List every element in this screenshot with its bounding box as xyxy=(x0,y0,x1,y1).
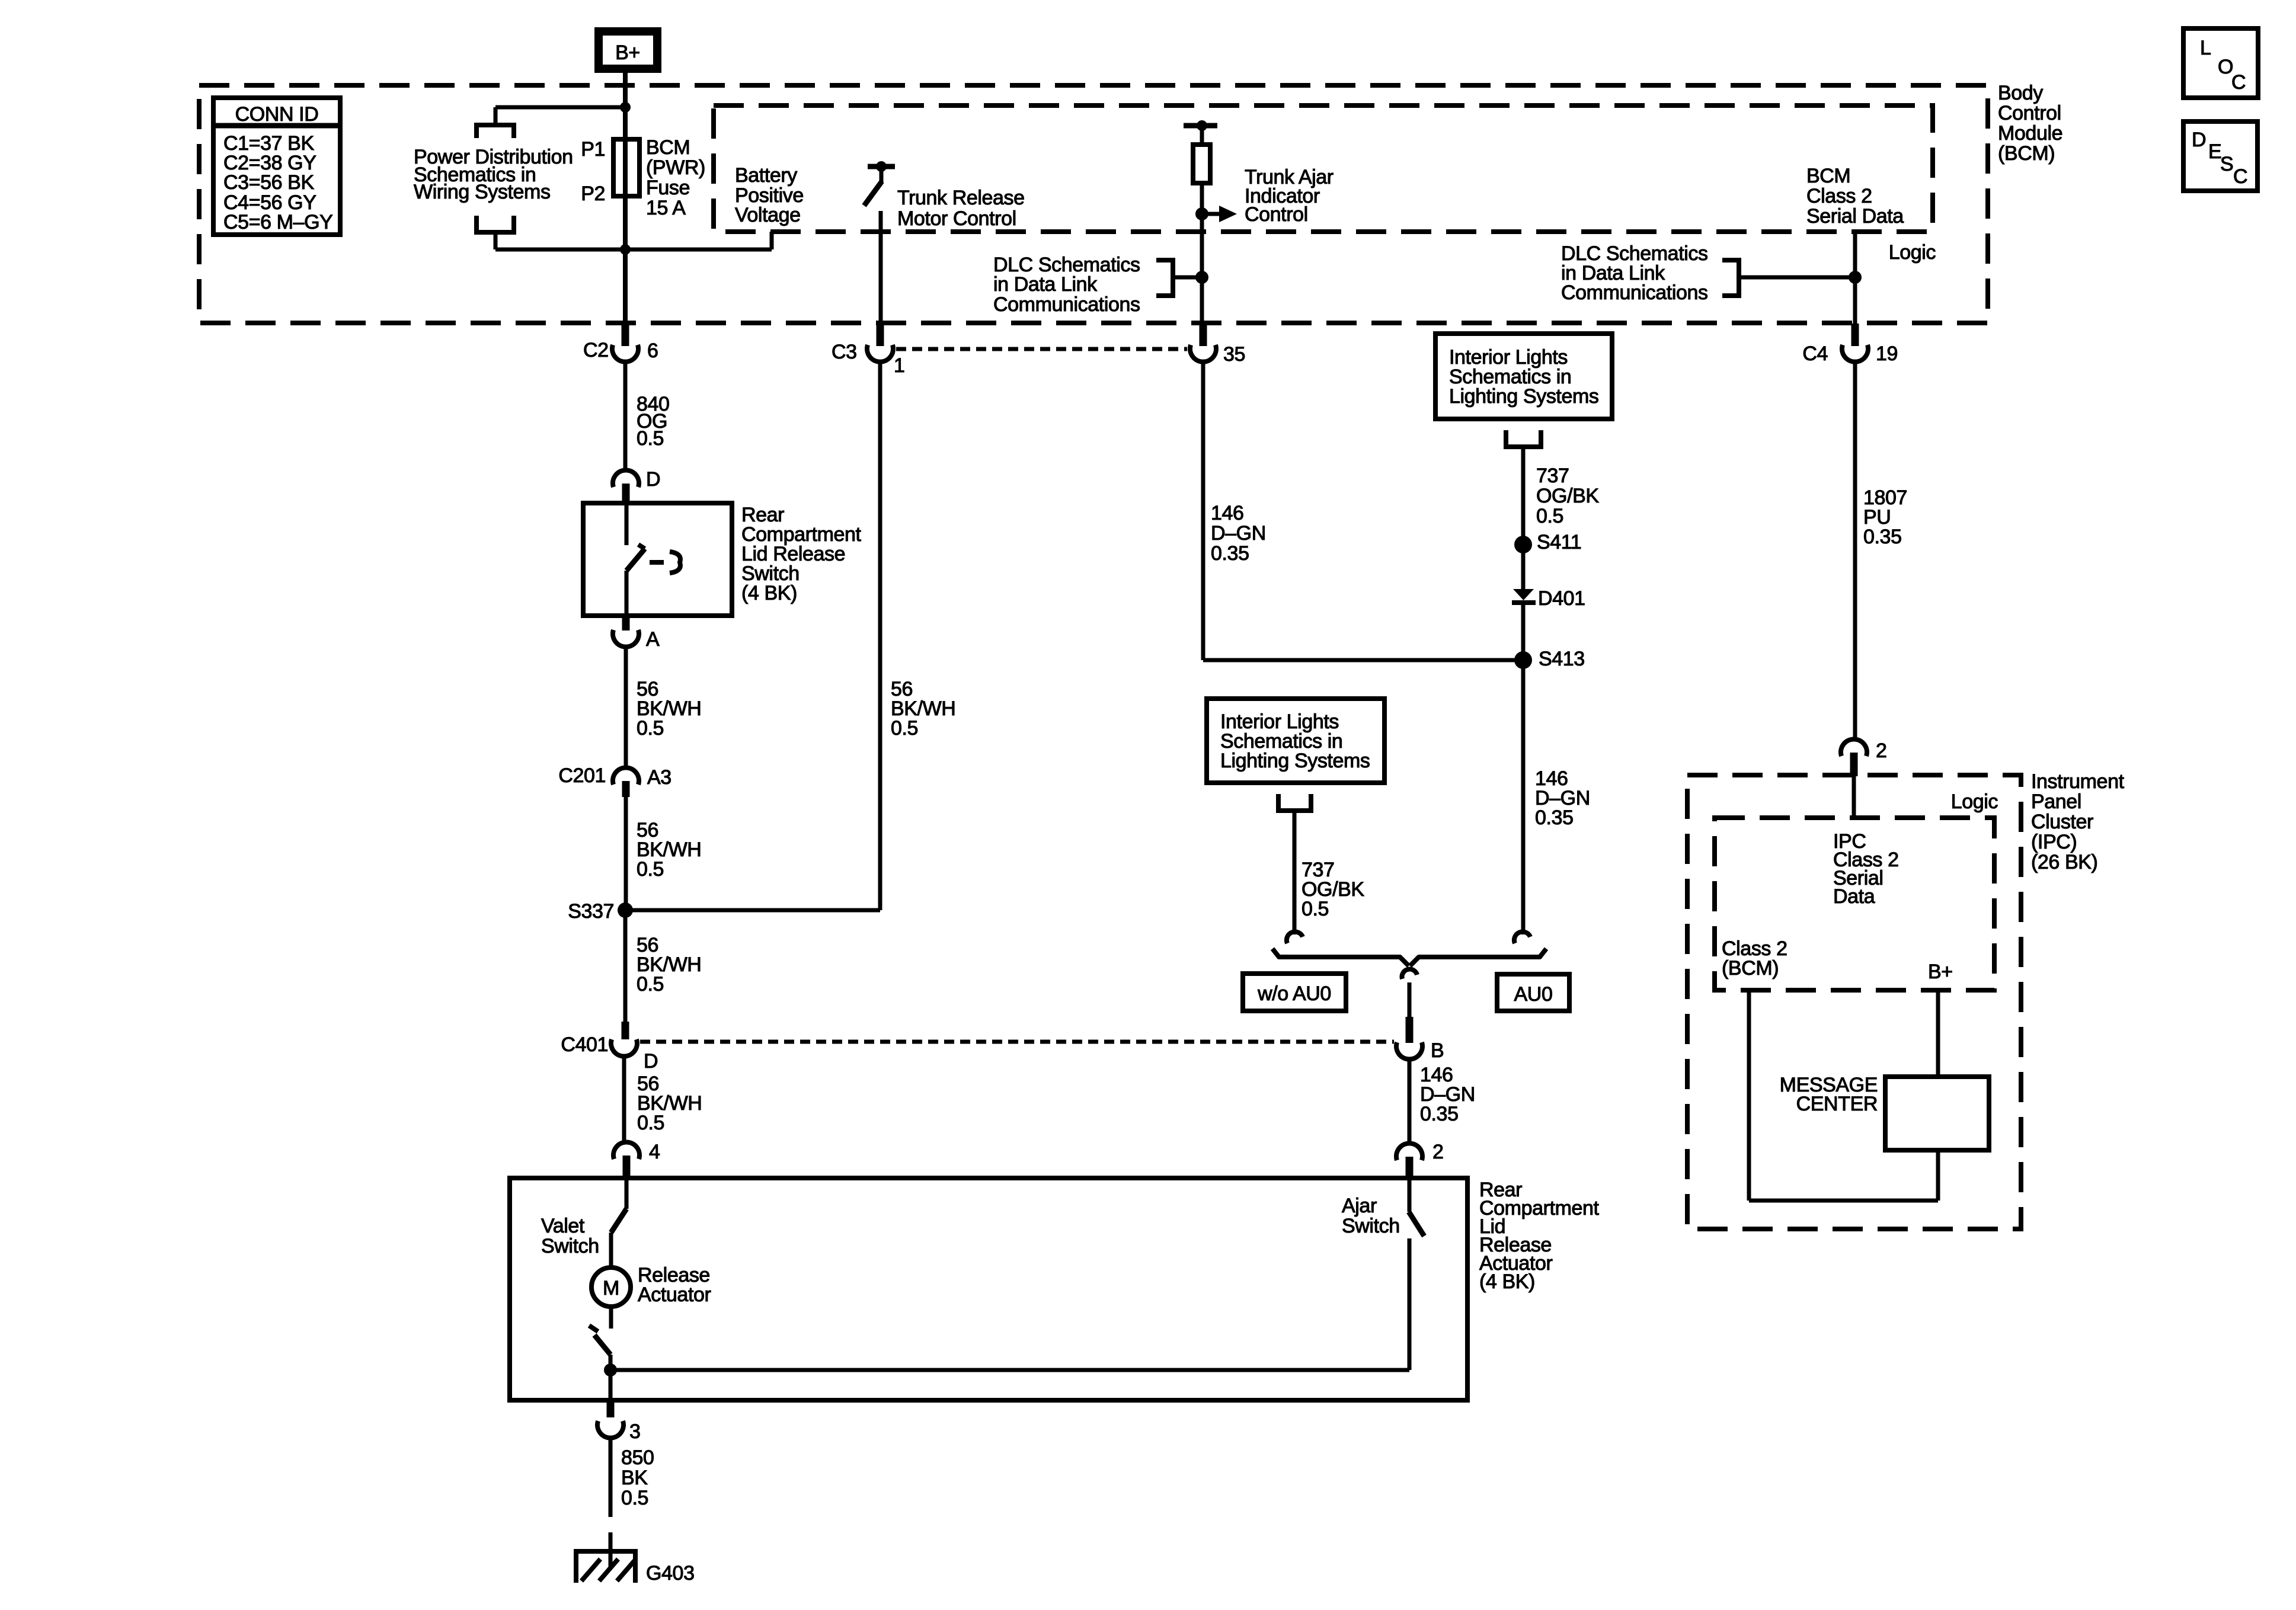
svg-text:C3: C3 xyxy=(832,341,857,363)
svg-text:C4: C4 xyxy=(1802,343,1828,365)
wire 56 BK/WH from C3 down xyxy=(878,360,882,910)
svg-text:Control: Control xyxy=(1245,203,1308,226)
svg-text:AU0: AU0 xyxy=(1514,983,1553,1006)
BCM outer dashed box xyxy=(199,85,1988,323)
message center display box xyxy=(1885,1077,1989,1150)
svg-text:D–GN: D–GN xyxy=(1211,522,1266,545)
DLC reference bracket (left) xyxy=(1156,260,1173,296)
wire 146 D-GN junction to S413 xyxy=(1203,658,1523,662)
dotted connector line C401-B xyxy=(640,1040,1394,1044)
svg-text:A: A xyxy=(646,628,660,651)
svg-text:OG/BK: OG/BK xyxy=(1536,485,1599,507)
wire junction to ajar switch xyxy=(610,1368,1409,1372)
svg-text:Logic: Logic xyxy=(1889,241,1936,264)
svg-text:S337: S337 xyxy=(568,900,614,923)
switch: Trunk Release Motor Control (BCM internal) xyxy=(868,164,895,169)
svg-text:Fuse: Fuse xyxy=(646,177,690,199)
svg-text:737: 737 xyxy=(1536,465,1569,487)
svg-text:Wiring Systems: Wiring Systems xyxy=(414,181,551,203)
wire 840 OG 0.5 xyxy=(623,360,628,470)
wire 146 D-GN 0.35 from pin 35 xyxy=(1201,360,1205,660)
connector C401 pin D xyxy=(622,1022,629,1039)
svg-text:Switch: Switch xyxy=(541,1235,599,1257)
svg-text:0.35: 0.35 xyxy=(1535,806,1574,829)
label AU0 box xyxy=(1497,974,1569,1011)
connector pin 4 (actuator) xyxy=(613,1142,639,1159)
svg-text:G403: G403 xyxy=(646,1562,695,1585)
svg-text:B: B xyxy=(1431,1039,1444,1062)
fuse F: BCM (PWR) Fuse 15 A xyxy=(613,139,639,196)
svg-text:19: 19 xyxy=(1876,343,1898,365)
svg-text:0.35: 0.35 xyxy=(1211,542,1249,565)
svg-text:Valet: Valet xyxy=(541,1215,585,1237)
svg-text:0.5: 0.5 xyxy=(637,973,664,996)
svg-text:CONN ID: CONN ID xyxy=(235,103,319,126)
svg-text:L: L xyxy=(2200,37,2211,59)
svg-text:146: 146 xyxy=(1211,502,1244,524)
motor M release actuator xyxy=(591,1267,631,1307)
wire 56 BK/WH 0.5 (C401 to actuator pin 4) xyxy=(622,1057,626,1142)
svg-text:M: M xyxy=(603,1277,619,1299)
svg-text:(BCM): (BCM) xyxy=(1998,142,2055,165)
IPC outer dashed box xyxy=(1687,775,2021,1229)
reference bracket below box xyxy=(1506,430,1541,447)
svg-text:in Data Link: in Data Link xyxy=(993,273,1098,296)
svg-text:A3: A3 xyxy=(647,766,671,789)
svg-text:Trunk Release: Trunk Release xyxy=(897,187,1025,209)
wire 146 D-GN 0.35 (B to pin 2) xyxy=(1408,1058,1412,1144)
svg-text:P2: P2 xyxy=(581,183,605,205)
svg-text:0.5: 0.5 xyxy=(891,717,918,740)
svg-text:Ajar: Ajar xyxy=(1342,1195,1377,1217)
svg-text:C401: C401 xyxy=(561,1033,608,1056)
label w/o AU0 box xyxy=(1243,974,1346,1011)
svg-text:BCM: BCM xyxy=(1806,165,1850,187)
svg-text:BK: BK xyxy=(621,1467,648,1489)
connector C1 pin 35 xyxy=(1200,324,1207,346)
svg-text:Control: Control xyxy=(1998,102,2061,124)
svg-text:(4 BK): (4 BK) xyxy=(741,582,797,604)
svg-text:1: 1 xyxy=(894,354,905,377)
svg-text:E: E xyxy=(2208,140,2221,163)
connector C2 pin 6 xyxy=(622,324,629,346)
svg-text:0.5: 0.5 xyxy=(1536,505,1563,527)
BCM internal Logic dashed box xyxy=(714,105,1933,232)
svg-text:Panel: Panel xyxy=(2031,790,2081,813)
svg-text:Communications: Communications xyxy=(1561,281,1708,304)
svg-text:0.5: 0.5 xyxy=(637,717,664,740)
svg-text:15 A: 15 A xyxy=(646,197,686,219)
power distribution reference bracket (top) xyxy=(477,125,514,138)
svg-text:2: 2 xyxy=(1432,1141,1444,1163)
svg-text:B+: B+ xyxy=(1928,961,1953,983)
svg-text:D: D xyxy=(646,468,660,491)
option brace xyxy=(1272,949,1409,966)
svg-text:0.5: 0.5 xyxy=(637,427,664,450)
LOC reference box xyxy=(2183,28,2258,98)
IPC internal Logic dashed box xyxy=(1715,818,1994,990)
svg-text:Module: Module xyxy=(1998,122,2062,145)
power distribution reference bracket (bottom) xyxy=(477,216,514,232)
arrow Trunk Ajar Indicator Control xyxy=(1202,212,1221,216)
svg-text:Switch: Switch xyxy=(1342,1215,1400,1237)
wire 1807 PU 0.35 xyxy=(1853,360,1857,740)
wire Class 2 (BCM) to message center xyxy=(1747,990,1751,1201)
svg-text:Data: Data xyxy=(1833,885,1875,908)
option splice curl (left) xyxy=(1287,932,1303,943)
svg-text:D: D xyxy=(2192,129,2206,151)
interior lights reference box (lower) xyxy=(1207,699,1384,783)
svg-text:(IPC): (IPC) xyxy=(2031,831,2077,853)
CONN ID table xyxy=(213,98,340,235)
connector C4 pin 19 xyxy=(1851,324,1859,346)
node: junction valet to ajar xyxy=(604,1363,617,1377)
connector pin 2 (IPC) xyxy=(1841,739,1867,756)
svg-text:S411: S411 xyxy=(1537,531,1581,553)
svg-text:Instrument: Instrument xyxy=(2031,770,2125,793)
wire to Battery Positive Voltage xyxy=(770,232,774,249)
connector pin 3 (actuator) xyxy=(607,1401,615,1417)
svg-text:35: 35 xyxy=(1223,343,1245,366)
svg-text:0.5: 0.5 xyxy=(621,1487,648,1509)
svg-text:Logic: Logic xyxy=(1951,790,1998,813)
node: junction B+ / power distribution xyxy=(620,102,631,113)
svg-text:(4 BK): (4 BK) xyxy=(1479,1270,1535,1293)
svg-text:2: 2 xyxy=(1876,740,1887,762)
wire 737 OG/BK 0.5 to S411 xyxy=(1521,447,1526,545)
svg-text:D: D xyxy=(644,1050,658,1073)
svg-text:Battery: Battery xyxy=(735,164,797,187)
svg-text:CENTER: CENTER xyxy=(1796,1093,1878,1115)
diode D401 xyxy=(1513,589,1534,600)
rear compartment lid release actuator box xyxy=(510,1178,1467,1400)
svg-text:Motor Control: Motor Control xyxy=(897,207,1016,230)
svg-text:0.5: 0.5 xyxy=(637,858,664,881)
connector pin 2 (actuator) xyxy=(1396,1143,1422,1160)
svg-text:C: C xyxy=(2233,165,2247,188)
splice S411 xyxy=(1514,536,1532,553)
switch detent dash xyxy=(650,560,664,565)
svg-text:(26 BK): (26 BK) xyxy=(2031,851,2097,873)
connector B (actuator) xyxy=(1406,1017,1414,1043)
svg-text:0.5: 0.5 xyxy=(637,1112,664,1134)
wire 737 OG/BK 0.5 (w/o AU0 branch) xyxy=(1293,811,1297,934)
svg-text:6: 6 xyxy=(647,340,658,362)
svg-text:C3=56 BK: C3=56 BK xyxy=(223,171,314,194)
svg-text:Voltage: Voltage xyxy=(735,204,801,226)
wire BCM class 2 serial data to C4 xyxy=(1853,232,1857,325)
valet switch xyxy=(625,1178,629,1209)
wire 56 BK/WH 0.5 (C201 to S337) xyxy=(624,797,628,910)
reference bracket below box xyxy=(1278,794,1311,811)
svg-text:Lighting Systems: Lighting Systems xyxy=(1449,385,1599,408)
svg-text:D401: D401 xyxy=(1538,587,1585,610)
connector C3 pin 1 xyxy=(877,324,884,346)
svg-text:w/o AU0: w/o AU0 xyxy=(1257,982,1331,1005)
splice S337 xyxy=(626,908,880,913)
brace output curl xyxy=(1402,969,1417,979)
svg-text:S: S xyxy=(2220,153,2233,175)
switch blade (lid release switch) xyxy=(625,503,629,545)
splice S413 xyxy=(1514,651,1532,669)
svg-text:Body: Body xyxy=(1998,82,2043,104)
connector D (switch) xyxy=(613,470,639,487)
wire into IPC logic xyxy=(1852,776,1856,818)
battery feed B+ box xyxy=(599,31,657,69)
rear compartment lid release switch box xyxy=(583,503,732,616)
wire B+ down to C2 xyxy=(623,73,628,325)
svg-text:C201: C201 xyxy=(558,764,606,787)
svg-text:B+: B+ xyxy=(615,41,640,64)
switch detent hook xyxy=(670,552,680,573)
svg-text:3: 3 xyxy=(629,1420,641,1443)
svg-text:(PWR): (PWR) xyxy=(646,156,705,179)
node: splice to DLC (right) xyxy=(1849,271,1862,284)
svg-text:Actuator: Actuator xyxy=(638,1283,711,1306)
wire B+ to message center xyxy=(1936,990,1940,1077)
svg-text:0.5: 0.5 xyxy=(1302,898,1329,920)
svg-text:BCM: BCM xyxy=(646,136,690,159)
dotted connector line C3-35 xyxy=(896,347,1187,351)
node: trunk ajar output junction xyxy=(1195,207,1208,220)
svg-text:Communications: Communications xyxy=(993,293,1140,316)
valet lower contact xyxy=(609,1307,613,1329)
svg-text:Class 2: Class 2 xyxy=(1806,185,1872,207)
wire 850 BK 0.5 xyxy=(609,1439,613,1517)
svg-text:4: 4 xyxy=(649,1141,660,1163)
svg-text:Serial Data: Serial Data xyxy=(1806,205,1904,228)
svg-text:P1: P1 xyxy=(581,138,605,161)
connector C201 pin A3 xyxy=(613,767,639,785)
option splice curl (right) xyxy=(1514,932,1530,943)
svg-text:850: 850 xyxy=(621,1446,654,1469)
wire 56 BK/WH 0.5 (S337 to C401) xyxy=(623,910,628,1022)
wire bracket to battery-positive bus xyxy=(494,232,498,249)
svg-text:C: C xyxy=(2231,71,2246,94)
wire 56 BK/WH 0.5 (A to C201) xyxy=(624,646,628,768)
svg-text:C5=6 M–GY: C5=6 M–GY xyxy=(223,211,332,233)
DESC reference box xyxy=(2183,121,2257,191)
connector A xyxy=(622,616,630,630)
DLC reference bracket (right) xyxy=(1722,260,1739,296)
resistor: Trunk Ajar Indicator Control driver xyxy=(1184,123,1217,129)
svg-text:C2: C2 xyxy=(583,339,609,361)
svg-text:Lighting Systems: Lighting Systems xyxy=(1220,750,1370,772)
ground G403 xyxy=(576,1551,635,1583)
svg-text:(BCM): (BCM) xyxy=(1722,957,1779,980)
node: junction below fuse xyxy=(620,244,631,255)
svg-text:Cluster: Cluster xyxy=(2031,811,2093,833)
wire 146 D-GN 0.35 below S413 xyxy=(1521,660,1526,934)
node: splice to DLC (left) xyxy=(1195,271,1208,284)
wire to power distribution reference xyxy=(495,105,625,110)
svg-text:0.35: 0.35 xyxy=(1420,1103,1459,1125)
svg-text:0.35: 0.35 xyxy=(1863,526,1902,548)
ajar switch xyxy=(1408,1178,1412,1212)
svg-text:S413: S413 xyxy=(1539,648,1585,670)
interior lights reference box (upper) xyxy=(1435,334,1612,419)
